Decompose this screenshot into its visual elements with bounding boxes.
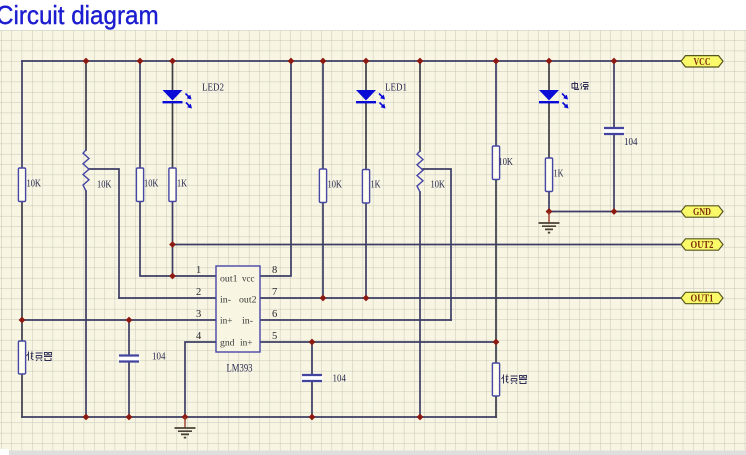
wire: R9 rail mid — [495, 179, 497, 363]
wire: cap3 rail upper — [613, 61, 615, 127]
svg-text:out1: out1 — [220, 275, 238, 285]
svg-text:10K: 10K — [328, 179, 343, 191]
resistor 1K under LED2 — [169, 168, 176, 202]
sensor box right — [492, 363, 499, 396]
svg-text:104: 104 — [152, 351, 166, 363]
svg-text:VCC: VCC — [694, 57, 711, 68]
wire: left rail x22 lower — [21, 374, 23, 417]
svg-text:LM393: LM393 — [227, 363, 253, 375]
node: pin5-R9 — [493, 339, 500, 346]
svg-text:in-: in- — [220, 296, 231, 306]
wire: 1K3 to GND — [548, 191, 550, 212]
connector flag OUT1 — [681, 292, 723, 304]
svg-text:10K: 10K — [27, 178, 42, 190]
node: pin3-left rail — [19, 317, 26, 324]
resistor R? 10K left — [18, 168, 25, 202]
wire: pin8 to VCC — [260, 61, 291, 276]
wire: LED1 rail upper — [365, 61, 367, 90]
node: bottom-cap2 — [309, 414, 316, 421]
wire: cap1 rail lower — [128, 363, 130, 418]
resistor 1K under LED3 — [545, 158, 552, 192]
node: bottom-cap1 — [126, 414, 133, 421]
svg-text:2: 2 — [196, 287, 201, 298]
svg-text:10K: 10K — [97, 179, 112, 191]
node: VCC-cap3 — [611, 58, 618, 65]
wire: R3 rail upper — [139, 61, 141, 168]
svg-text:vcc: vcc — [242, 275, 255, 285]
wire: cap3 rail lower — [613, 135, 615, 212]
wire: pin3 wire — [22, 319, 216, 321]
wire: GND wire — [549, 211, 682, 213]
svg-text:LED2: LED2 — [202, 82, 224, 94]
node: VCC-LED3 — [546, 58, 553, 65]
svg-text:5: 5 — [272, 331, 277, 342]
wire: pot2 tap to pin6 — [423, 169, 451, 320]
svg-text:out2: out2 — [239, 296, 257, 306]
node: GND-cap3 — [611, 208, 618, 215]
wire: pin4 wire to ground — [185, 342, 216, 417]
LED2 — [163, 90, 193, 109]
label 传感器 (left sensor) — [27, 352, 53, 361]
node: VCC-pin8 — [288, 58, 295, 65]
svg-text:6: 6 — [272, 309, 277, 320]
label 传感器 (right sensor) — [502, 375, 528, 384]
node: pin7-1K2 — [363, 295, 370, 302]
wire: R3 rail to pin1 — [140, 202, 216, 277]
node: pin1-1K — [169, 273, 176, 280]
svg-text:10K: 10K — [144, 178, 159, 190]
wire: pin5 wire — [260, 341, 496, 343]
ground symbol (LED3 / GND net) — [539, 212, 560, 233]
wire: cap1 rail upper — [128, 320, 130, 354]
svg-text:GND: GND — [693, 207, 711, 218]
wire: left rail x22 mid — [21, 202, 23, 342]
node: bottom-pot2 — [417, 414, 424, 421]
svg-text:10K: 10K — [431, 179, 446, 191]
wire: pot2 rail lower — [419, 192, 421, 417]
resistor 10K right — [492, 146, 499, 180]
wire: R6 rail upper — [322, 61, 324, 169]
wire: LED3 to 1K3 — [548, 102, 550, 158]
wire: bottom rail — [22, 416, 496, 418]
svg-text:4: 4 — [196, 331, 202, 342]
svg-text:OUT2: OUT2 — [691, 240, 714, 251]
resistor 1K under LED1 — [362, 170, 369, 204]
node: pin7-R6 — [320, 295, 327, 302]
node: VCC-LED2 — [169, 58, 176, 65]
wire: pot1 tap — [89, 169, 119, 298]
svg-text:in+: in+ — [240, 339, 253, 349]
svg-text:in+: in+ — [220, 317, 233, 327]
wire: R9 rail upper — [495, 61, 497, 146]
capacitor C1 104 (bottom left) — [119, 356, 140, 362]
node: VCC-pot2 — [417, 58, 424, 65]
node: pin5-cap2 — [309, 339, 316, 346]
node: VCC-pot1 — [83, 58, 90, 65]
wire: LED1 to 1K — [365, 102, 367, 170]
node: GND-LED3 — [546, 208, 553, 215]
svg-text:3: 3 — [196, 309, 201, 320]
svg-text:7: 7 — [272, 287, 277, 298]
wire: LED2 to 1K — [172, 102, 174, 168]
wire: pot1 rail lower — [85, 191, 87, 417]
node: OUT2 tap — [169, 241, 176, 248]
resistor 10K above pin7 — [319, 169, 326, 203]
sensor box left — [18, 341, 25, 374]
wire: cap2 rail lower — [311, 383, 313, 418]
wire: pin2 wire — [119, 297, 216, 299]
wire: cap2 rail upper — [311, 342, 313, 374]
node: bottom-gnd1 — [182, 414, 189, 421]
node: bottom-pot1 — [83, 414, 90, 421]
wire: pot2 rail upper — [419, 61, 421, 151]
svg-text:104: 104 — [624, 136, 638, 148]
connector flag GND — [681, 206, 723, 218]
connector flag VCC — [681, 56, 723, 68]
ground symbol (pin4, bottom) — [175, 417, 196, 438]
label 电源 — [572, 82, 589, 91]
potentiometer 10K pot1 zigzag — [83, 150, 89, 191]
svg-text:1K: 1K — [371, 179, 381, 191]
node: VCC-LED1 — [363, 58, 370, 65]
LED 电源 — [539, 90, 569, 109]
wire: 1K2 to pin7 — [365, 203, 367, 299]
resistor 10K above pin1 — [136, 168, 143, 202]
node: pin3-cap1 — [126, 317, 133, 324]
wire: R6 rail lower — [322, 202, 324, 298]
svg-text:104: 104 — [333, 373, 347, 385]
wire: LED2 rail upper — [172, 61, 174, 90]
node: VCC-R3 — [137, 58, 144, 65]
node: VCC-R6 — [320, 58, 327, 65]
node: VCC-R9 — [493, 58, 500, 65]
wire: R9 rail lower — [495, 396, 497, 417]
potentiometer 10K pot2 zigzag — [417, 151, 423, 192]
wire: pin7 OUT1 wire — [260, 297, 682, 299]
wire: 1K to pin1 junction — [172, 202, 174, 277]
svg-text:1: 1 — [196, 265, 201, 276]
capacitor C2 104 (bottom middle) — [302, 375, 323, 381]
wire: pot1 rail upper — [85, 61, 87, 150]
svg-text:10K: 10K — [499, 156, 514, 168]
connector flag OUT2 — [681, 239, 723, 251]
svg-text:LED1: LED1 — [385, 82, 407, 94]
capacitor C3 104 (top right) — [604, 128, 625, 134]
LED1 — [356, 90, 386, 109]
op-amp U1 LM393 body — [216, 266, 260, 352]
wire: OUT2 wire — [173, 244, 683, 246]
svg-text:1K: 1K — [554, 168, 564, 180]
wire: LED3 rail upper — [548, 61, 550, 90]
svg-text:OUT1: OUT1 — [691, 294, 714, 305]
svg-text:8: 8 — [272, 265, 277, 276]
wire: pin6 wire — [260, 319, 451, 321]
wire: left rail x22 upper — [21, 61, 23, 168]
svg-text:1K: 1K — [177, 178, 187, 190]
svg-text:gnd: gnd — [220, 339, 235, 349]
svg-text:in-: in- — [242, 317, 253, 327]
wire: top VCC rail — [22, 60, 682, 62]
